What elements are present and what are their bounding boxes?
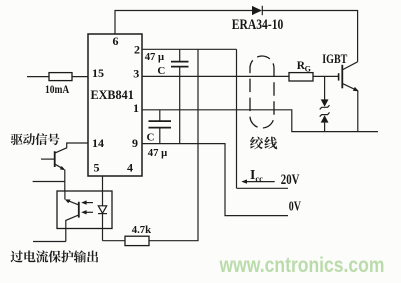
resistor R1 input 10mA — [49, 73, 72, 81]
svg-text:3: 3 — [133, 66, 139, 80]
wire pin 14 to Q1 collector — [55, 143, 88, 153]
capacitor C1 47u — [171, 49, 189, 143]
wire RG to IGBT gate — [313, 75, 339, 77]
svg-text:10mA: 10mA — [45, 84, 70, 96]
optocoupler phototransistor — [65, 191, 79, 242]
svg-text:20V: 20V — [281, 172, 300, 188]
svg-text:EXB841: EXB841 — [91, 88, 134, 102]
wire pin 9 to 0V rail — [142, 144, 288, 216]
wire input to pin 15 — [27, 76, 88, 78]
optocoupler U2 box — [57, 191, 112, 229]
svg-text:C: C — [157, 65, 165, 77]
zener diode ZD1 — [320, 76, 330, 109]
wire pin 1 to emitter return — [142, 110, 378, 132]
wire pin 2 to Vcc rail — [142, 48, 237, 50]
wire Vcc vertical down to 20V rail — [236, 49, 238, 188]
twisted pair cable marker — [250, 56, 274, 128]
svg-text:15: 15 — [92, 66, 104, 80]
svg-text:47 μ: 47 μ — [145, 51, 164, 63]
transistor Q1 drive input — [41, 151, 65, 170]
wire lower left input — [33, 181, 65, 183]
label 过电流保护输出 — [11, 250, 99, 262]
resistor R2 4.7k — [125, 236, 149, 245]
svg-text:www.cntronics.com: www.cntronics.com — [219, 253, 385, 277]
svg-text:6: 6 — [113, 34, 119, 48]
svg-text:14: 14 — [92, 136, 104, 150]
wire diode cathode to IGBT collector — [262, 11, 357, 62]
svg-text:0V: 0V — [289, 199, 302, 214]
wire top supply from pin6 to diode anode — [115, 11, 252, 35]
IC U1 EXB841 body — [88, 34, 142, 176]
label 绞线 — [250, 137, 277, 150]
svg-text:5: 5 — [94, 160, 100, 174]
svg-text:IGBT: IGBT — [322, 52, 347, 66]
wire Q1 emitter down to optocoupler — [64, 170, 66, 192]
optocoupler LED D2 — [98, 206, 107, 241]
svg-text:4: 4 — [127, 160, 133, 174]
capacitor C2 47u — [149, 110, 172, 144]
svg-text:ERA34-10: ERA34-10 — [232, 17, 283, 33]
svg-text:cc: cc — [255, 173, 263, 183]
diode ERA34-10 — [252, 6, 262, 15]
zener diode ZD2 — [320, 112, 330, 131]
wire overcurrent output — [33, 241, 66, 243]
svg-text:1: 1 — [133, 101, 139, 115]
svg-text:4.7k: 4.7k — [132, 224, 152, 236]
svg-text:G: G — [305, 65, 311, 74]
wire 4.7k to optocoupler LED — [103, 240, 126, 242]
optocoupler light arrows — [81, 200, 93, 214]
current arrow Icc — [241, 179, 274, 183]
wire IGBT emitter down — [357, 91, 359, 132]
wire pin 3 to gate resistor — [142, 75, 289, 77]
label Icc — [250, 167, 263, 183]
label RG — [297, 60, 311, 74]
label 驱动信号 — [11, 133, 60, 145]
wire 20V rail — [237, 187, 289, 189]
wire pin 5 to optocoupler LED — [102, 176, 104, 206]
svg-text:47 μ: 47 μ — [148, 147, 167, 159]
resistor RG — [289, 73, 313, 81]
svg-text:C: C — [147, 131, 155, 143]
svg-text:9: 9 — [132, 136, 138, 150]
transistor IGBT — [339, 62, 359, 92]
wire pin2 node down to 4.7k resistor — [149, 49, 198, 240]
svg-text:2: 2 — [134, 42, 140, 56]
